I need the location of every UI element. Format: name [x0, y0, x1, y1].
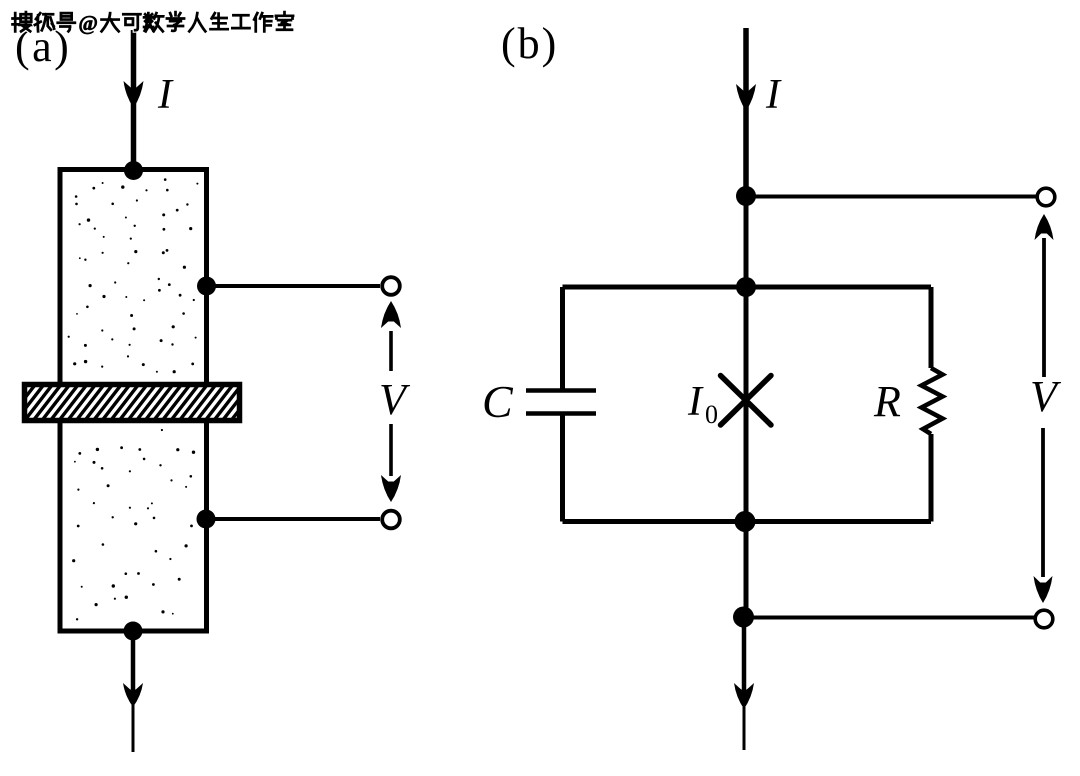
svg-text:C: C — [482, 376, 514, 427]
svg-text:@: @ — [78, 11, 98, 35]
capacitor C plates — [526, 388, 596, 393]
arrow: (b) V down — [1041, 428, 1045, 577]
wire: (b) parallel bottom rail — [563, 519, 932, 524]
wire: (a) top current lead — [131, 30, 137, 170]
wire: (b) bottom lead with arrow — [742, 617, 747, 705]
svg-text:I: I — [765, 72, 782, 118]
svg-text:I: I — [157, 72, 174, 118]
wire: (b) parallel top rail — [563, 285, 932, 290]
node: (a) bottom junction — [124, 622, 143, 641]
arrowhead: (a) current I — [124, 81, 144, 108]
node: (b) parallel top — [736, 277, 756, 297]
wire: (b) main vertical through junction — [744, 196, 749, 617]
node: (a) top junction — [124, 161, 143, 180]
wire: (b) resistor branch lower — [929, 434, 934, 522]
resistor R zigzag — [922, 368, 943, 434]
superconductor block (a) — [60, 170, 207, 632]
node: (b) parallel bottom — [735, 511, 756, 532]
node: (a) lower tap — [197, 510, 216, 529]
terminal: (b) upper (open circle) — [1037, 188, 1055, 206]
wire: (b) capacitor branch upper — [560, 287, 565, 390]
terminal: (a) lower (open circle) — [382, 511, 400, 529]
node: (a) upper tap — [197, 277, 216, 296]
node: (b) lower terminal tap — [733, 607, 754, 628]
wire: (a) upper tap to terminal — [206, 284, 380, 288]
svg-text:I: I — [687, 379, 704, 425]
svg-text:(b): (b) — [501, 19, 558, 68]
wire: (b) resistor branch upper — [929, 287, 934, 368]
wire: (b) top current lead — [743, 28, 749, 196]
watermark: sohu account text — [13, 12, 33, 31]
terminal: (a) upper (open circle) — [382, 277, 400, 295]
wire: (b) lower tap to terminal — [744, 616, 1036, 620]
wire: (a) lower tap to terminal — [206, 517, 380, 521]
arrow: (a) V down — [389, 424, 393, 476]
arrow: (b) V up — [1042, 238, 1046, 377]
arrowhead: (b) current I — [736, 84, 756, 111]
wire: (b) capacitor branch lower — [560, 413, 565, 522]
arrow: (a) V up — [389, 331, 393, 371]
svg-text:R: R — [873, 377, 901, 426]
stipple dots in block — [68, 178, 199, 620]
node: (b) upper terminal tap — [736, 186, 756, 206]
wire: (b) upper tap to terminal — [746, 195, 1036, 199]
wire: (a) bottom lead with arrow — [131, 631, 136, 703]
Josephson junction X (I0) — [721, 376, 772, 426]
svg-text:0: 0 — [705, 400, 718, 429]
barrier bar (hatched) — [0, 381, 279, 425]
terminal: (b) lower (open circle) — [1035, 610, 1053, 628]
